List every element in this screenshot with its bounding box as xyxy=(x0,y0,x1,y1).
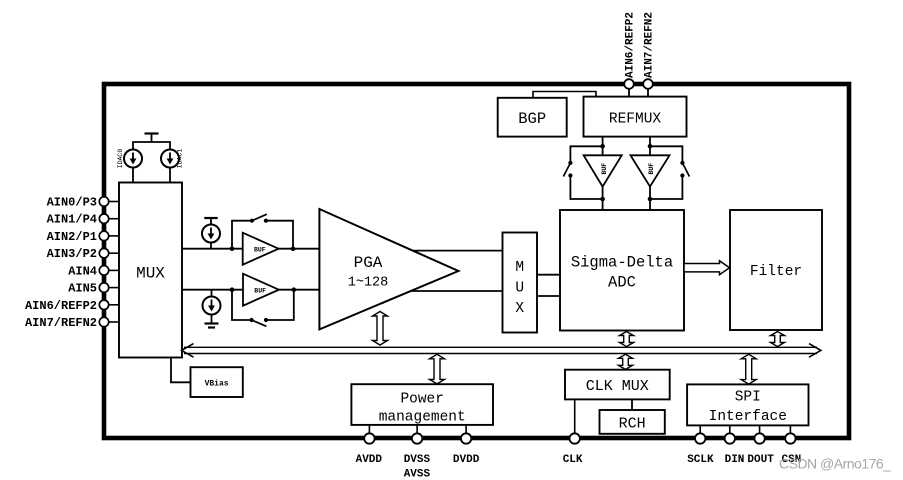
svg-text:BUF: BUF xyxy=(254,288,266,295)
arrow bus to CLK MUX xyxy=(619,354,633,369)
svg-text:AIN2/P1: AIN2/P1 xyxy=(47,230,97,244)
wire CLK MUX to CLK pin xyxy=(574,399,576,438)
svg-text:PGA: PGA xyxy=(354,254,383,272)
wire IDAC supply tee xyxy=(133,142,170,150)
wire AIN3 stub xyxy=(104,252,119,254)
spi block SPI Interface xyxy=(687,384,808,425)
ground xyxy=(205,315,219,328)
wire AIN5 stub xyxy=(104,287,119,289)
svg-text:X: X xyxy=(515,301,524,317)
pin DVDD xyxy=(453,433,480,466)
svg-text:RCH: RCH xyxy=(619,416,646,433)
svg-text:Filter: Filter xyxy=(750,264,802,280)
buffer ref left xyxy=(584,155,622,186)
svg-text:Power: Power xyxy=(400,392,444,408)
bias source VBias xyxy=(191,367,243,397)
svg-text:management: management xyxy=(379,410,466,426)
svg-text:IDAC0: IDAC0 xyxy=(117,149,124,169)
wire PGA to MUX2 top xyxy=(413,250,503,252)
svg-text:MUX: MUX xyxy=(136,265,165,283)
svg-text:BGP: BGP xyxy=(518,110,546,128)
wire AVDD stub xyxy=(368,425,370,439)
svg-text:REFMUX: REFMUX xyxy=(609,112,662,128)
svg-text:DVDD: DVDD xyxy=(453,454,480,466)
wire SCLK stub xyxy=(699,425,701,438)
power block Power management xyxy=(351,384,493,425)
wire MUX2 to ADC bottom xyxy=(537,295,560,297)
arrow ADC to Filter xyxy=(684,261,730,275)
svg-text:CLK MUX: CLK MUX xyxy=(586,378,649,395)
wire REFMUX to left ref buffer xyxy=(602,137,604,156)
svg-text:BUF: BUF xyxy=(601,163,608,175)
pin AIN2/P1 xyxy=(47,230,109,244)
svg-text:U: U xyxy=(515,281,524,297)
wire MUX to PGA bottom xyxy=(182,289,319,291)
svg-text:AIN7/REFN2: AIN7/REFN2 xyxy=(644,12,656,78)
svg-text:VBias: VBias xyxy=(205,379,229,388)
wire AIN2 stub xyxy=(104,235,119,237)
wire CLK MUX to RCH xyxy=(631,399,633,410)
wire left ref bypass xyxy=(570,146,602,163)
svg-text:DVSS: DVSS xyxy=(404,454,431,466)
chip boundary frame xyxy=(104,84,849,438)
input mux MUX xyxy=(119,183,182,358)
svg-text:M: M xyxy=(515,260,524,276)
wire bottom bypass right xyxy=(266,290,294,320)
pin CLK xyxy=(563,433,583,466)
node right ref bottom xyxy=(648,197,653,202)
pin AIN7/REFN2 xyxy=(25,316,109,330)
wire AIN7 stub xyxy=(104,321,119,323)
switch S3 left ref xyxy=(563,161,572,178)
wire right ref bypass xyxy=(650,146,682,163)
wire right ref buffer to ADC xyxy=(649,187,651,210)
svg-text:AIN0/P3: AIN0/P3 xyxy=(47,196,97,210)
pin AIN6/REFP2 xyxy=(25,299,109,313)
wire MUX to VBias xyxy=(171,358,191,383)
svg-text:Interface: Interface xyxy=(709,409,787,425)
svg-text:BUF: BUF xyxy=(254,247,266,254)
current source IDAC1 xyxy=(161,149,184,169)
current source IDAC0 xyxy=(117,149,142,169)
supply rail over burnout source xyxy=(204,218,217,225)
wire DIN stub xyxy=(729,425,731,438)
bus main data bus xyxy=(182,344,821,358)
svg-text:AIN1/P4: AIN1/P4 xyxy=(47,213,97,227)
wire MUX to PGA top xyxy=(182,248,319,250)
arrow bus to SPI xyxy=(741,354,756,384)
wire CSN stub xyxy=(789,425,791,438)
buffer ref right xyxy=(631,155,670,186)
wire IDAC0 to MUX xyxy=(132,168,134,183)
node left ref bottom xyxy=(600,197,605,202)
pin AIN1/P4 xyxy=(47,213,109,227)
pin DOUT xyxy=(747,433,774,466)
current source bottom burnout xyxy=(203,297,221,315)
svg-text:AIN6/REFP2: AIN6/REFP2 xyxy=(25,299,97,313)
node left ref top xyxy=(600,144,605,149)
wire AIN4 stub xyxy=(104,269,119,271)
pin AIN7/REFN2 top xyxy=(643,12,655,97)
switch S4 right ref xyxy=(680,161,689,178)
svg-text:BUF: BUF xyxy=(648,163,655,175)
pin AVDD xyxy=(356,433,383,466)
node bottom buffer input xyxy=(230,287,235,292)
wire bottom bypass path xyxy=(232,290,252,320)
node bottom buffer output xyxy=(292,287,297,292)
wire AIN0 stub xyxy=(104,201,119,203)
pin AIN5 xyxy=(68,282,109,296)
current source top burnout xyxy=(202,225,220,243)
pin CSN xyxy=(781,433,801,466)
svg-text:SPI: SPI xyxy=(735,390,761,406)
svg-text:IDAC1: IDAC1 xyxy=(177,149,184,169)
wire right ref bypass lower xyxy=(650,176,682,200)
switch S1 top bypass xyxy=(250,214,268,223)
supply rail over IDACs xyxy=(145,134,159,143)
svg-text:ADC: ADC xyxy=(608,274,636,292)
svg-text:Sigma-Delta: Sigma-Delta xyxy=(571,254,673,272)
arrow PGA to bus xyxy=(373,312,388,346)
wire left ref bypass lower xyxy=(570,176,602,200)
svg-text:CLK: CLK xyxy=(563,454,583,466)
clock mux CLK MUX xyxy=(565,370,670,400)
wire DOUT stub xyxy=(759,425,761,438)
pin DVSS/AVSS xyxy=(404,433,431,480)
node right ref top xyxy=(648,144,653,149)
svg-text:AVSS: AVSS xyxy=(404,469,431,480)
svg-text:AIN4: AIN4 xyxy=(68,264,97,278)
filter U2 xyxy=(730,210,822,330)
wire burnout bottom stub xyxy=(211,290,213,297)
svg-text:DOUT: DOUT xyxy=(747,454,774,466)
pin SCLK xyxy=(687,433,714,466)
op-amp PGA 1~128 xyxy=(319,209,458,329)
wire BGP to REFMUX xyxy=(533,92,596,98)
pin AIN6/REFP2 top xyxy=(624,12,636,97)
svg-text:DIN: DIN xyxy=(725,454,745,466)
pin AIN4 xyxy=(68,264,109,278)
wire top bypass path xyxy=(232,221,252,249)
svg-text:SCLK: SCLK xyxy=(687,454,714,466)
arrow ADC to bus xyxy=(620,332,634,347)
wire REFMUX to right ref buffer xyxy=(649,137,651,156)
svg-text:1~128: 1~128 xyxy=(348,276,389,291)
output mux MUX2 xyxy=(503,233,538,333)
svg-text:CSDN @Arno176_: CSDN @Arno176_ xyxy=(779,456,891,472)
wire PGA to MUX2 bottom xyxy=(411,290,503,292)
pin AIN0/P3 xyxy=(47,196,109,210)
wire DVDD stub xyxy=(465,425,467,439)
node top buffer output xyxy=(291,246,296,251)
node top buffer input xyxy=(230,246,235,251)
arrow bus to Power xyxy=(430,354,445,384)
watermark xyxy=(779,456,891,472)
wire MUX2 to ADC top xyxy=(537,274,560,276)
pin DIN xyxy=(725,433,745,466)
bandgap BGP xyxy=(498,98,567,137)
switch S2 bottom bypass xyxy=(250,318,269,326)
adc U1 Sigma-Delta ADC xyxy=(560,210,684,331)
arrow Filter to bus xyxy=(771,332,785,347)
reference mux REFMUX xyxy=(584,97,687,137)
wire top bypass right xyxy=(266,221,293,249)
wire DVSS stub xyxy=(416,425,418,439)
svg-text:AIN5: AIN5 xyxy=(68,282,97,296)
pin AIN3/P2 xyxy=(47,247,109,261)
wire IDAC1 to MUX xyxy=(169,168,171,183)
svg-text:AVDD: AVDD xyxy=(356,454,383,466)
wire left ref buffer to ADC xyxy=(602,187,604,210)
buffer BUF top xyxy=(243,233,279,265)
svg-text:AIN6/REFP2: AIN6/REFP2 xyxy=(625,12,637,78)
svg-text:AIN7/REFN2: AIN7/REFN2 xyxy=(25,316,97,330)
wire AIN1 stub xyxy=(104,218,119,220)
wire burnout top to wire xyxy=(210,243,212,249)
oscillator RCH xyxy=(600,410,665,434)
svg-text:AIN3/P2: AIN3/P2 xyxy=(47,247,97,261)
buffer BUF bottom xyxy=(243,274,279,306)
wire AIN6 stub xyxy=(104,304,119,306)
